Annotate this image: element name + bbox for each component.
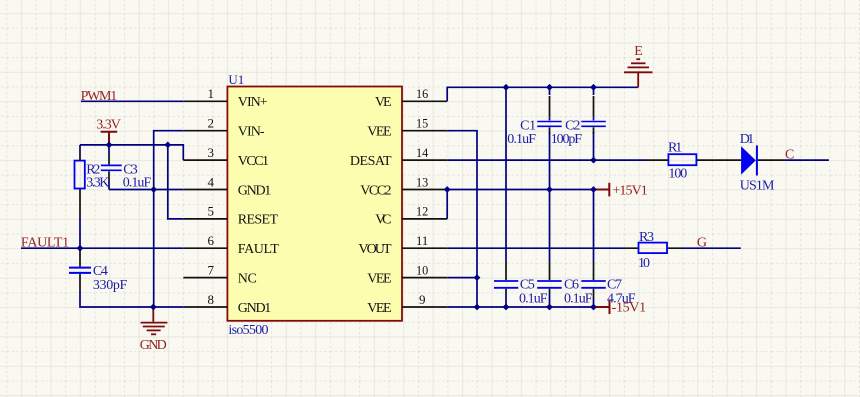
node VEE pin9 junction	[474, 304, 481, 311]
power symbol 3.3V	[101, 132, 118, 145]
node VE / C5 junction	[503, 84, 510, 91]
svg-text:VC: VC	[375, 213, 391, 228]
svg-text:12: 12	[416, 204, 428, 219]
svg-text:+15V1: +15V1	[612, 184, 647, 199]
svg-text:VOUT: VOUT	[358, 242, 392, 257]
wire diode to C	[758, 159, 785, 161]
svg-text:7: 7	[208, 262, 215, 277]
IC U1 iso5500 body	[227, 87, 402, 321]
node VEE pin10 junction	[474, 274, 481, 281]
resistor R3	[639, 243, 668, 254]
svg-text:0.1uF: 0.1uF	[123, 176, 152, 191]
pin 5 RESET	[183, 218, 227, 220]
svg-text:VIN-: VIN-	[238, 125, 265, 140]
svg-text:3.3V: 3.3V	[96, 118, 121, 133]
wire VEE pin10 to rail	[447, 277, 477, 279]
pin 11 VOUT	[402, 247, 447, 249]
svg-text:3: 3	[208, 145, 215, 160]
node 3.3V / C3 / R2 junction	[106, 142, 113, 149]
capacitor C5	[494, 281, 518, 288]
svg-text:DESAT: DESAT	[350, 154, 392, 169]
svg-text:C4: C4	[93, 264, 108, 279]
svg-text:11: 11	[416, 233, 428, 248]
resistor R2	[75, 161, 85, 189]
svg-text:C: C	[785, 148, 794, 163]
svg-text:GND1: GND1	[238, 183, 271, 198]
svg-text:100pF: 100pF	[551, 132, 583, 147]
svg-text:NC: NC	[238, 271, 257, 286]
pin 12 VC	[402, 218, 447, 220]
svg-text:RESET: RESET	[238, 213, 279, 228]
pin 2 VIN-	[183, 130, 227, 132]
pin 6 FAULT	[183, 247, 227, 249]
svg-text:VCC2: VCC2	[360, 183, 391, 198]
svg-text:GND1: GND1	[238, 301, 271, 316]
wire VEE pin9 row	[447, 306, 596, 308]
svg-text:VIN+: VIN+	[238, 95, 268, 110]
svg-text:iso5500: iso5500	[228, 323, 268, 338]
ground symbol GND	[141, 307, 168, 334]
wire rail x506 VE to C5	[505, 87, 507, 262]
svg-text:2: 2	[208, 116, 215, 131]
svg-text:C1: C1	[520, 118, 536, 133]
svg-text:C2: C2	[565, 118, 580, 133]
svg-text:VCC1: VCC1	[238, 154, 269, 169]
wire RESET rail	[168, 145, 184, 219]
node VCC2 / VC junction	[444, 186, 451, 193]
capacitor C6	[537, 281, 562, 288]
svg-text:R3: R3	[639, 230, 654, 245]
wire left rail R2 branch	[79, 145, 81, 248]
svg-text:VEE: VEE	[367, 301, 391, 316]
wire rail x593.5 upper	[593, 87, 595, 95]
svg-text:13: 13	[416, 174, 428, 189]
svg-text:GND: GND	[140, 338, 167, 353]
pin 8 GND1	[183, 306, 227, 308]
wire FAULT1 net to pin 6	[21, 247, 183, 249]
wire VIN- rail	[154, 131, 184, 307]
svg-text:VEE: VEE	[367, 125, 391, 140]
wire R3 to G	[683, 247, 741, 249]
svg-text:US1M: US1M	[740, 178, 775, 193]
svg-text:10: 10	[638, 256, 650, 271]
svg-text:0.1uF: 0.1uF	[564, 292, 593, 307]
ground symbol E	[624, 59, 653, 87]
capacitor C7	[581, 281, 606, 288]
wire rail x593.5 lower	[593, 190, 595, 263]
pin 7 NC	[183, 277, 227, 279]
node +15V1 / C7 junction	[590, 186, 597, 193]
wire VEE rail pin15	[447, 131, 477, 307]
pin 14 DESAT	[402, 159, 447, 161]
node 3.3V / RESET junction	[164, 142, 171, 149]
pin 3 VCC1	[183, 159, 227, 161]
node DESAT / C2 junction	[590, 157, 597, 164]
node GND1 / VIN- junction	[150, 186, 157, 193]
wire PWM1 net to pin 1	[81, 100, 183, 102]
svg-text:C6: C6	[564, 278, 579, 293]
svg-text:C5: C5	[520, 278, 535, 293]
svg-text:G: G	[697, 235, 707, 250]
node +15V1 / C1 junction	[546, 186, 553, 193]
svg-text:FAULT: FAULT	[238, 242, 280, 257]
wire 3.3V rail	[80, 145, 183, 160]
svg-text:14: 14	[416, 145, 429, 160]
pin 16 VE	[402, 100, 447, 102]
pin 1 VIN+	[183, 100, 227, 102]
node VEE / C6 junction	[546, 304, 553, 311]
pin 15 VEE	[402, 130, 447, 132]
svg-text:6: 6	[208, 233, 215, 248]
wire VCC2 pin13 to +15V1 and pin12	[447, 190, 596, 219]
pin 13 VCC2	[402, 189, 447, 191]
pin 9 VEE	[402, 306, 447, 308]
svg-text:U1: U1	[228, 72, 244, 87]
svg-text:4: 4	[208, 174, 215, 189]
svg-text:0.1uF: 0.1uF	[507, 132, 536, 147]
svg-text:330pF: 330pF	[93, 278, 128, 293]
svg-text:15: 15	[416, 116, 428, 131]
svg-text:VE: VE	[375, 95, 392, 110]
wire rail x549.5	[549, 87, 551, 95]
svg-text:9: 9	[419, 292, 426, 307]
svg-text:4.7uF: 4.7uF	[607, 292, 636, 307]
svg-text:0.1uF: 0.1uF	[519, 292, 548, 307]
wire GND1 pin4 row	[109, 189, 183, 191]
svg-text:C7: C7	[607, 278, 622, 293]
capacitor C3	[108, 145, 110, 155]
capacitor C1	[537, 122, 562, 127]
svg-text:100: 100	[668, 167, 687, 182]
svg-text:5: 5	[208, 204, 215, 219]
diode D1	[741, 146, 756, 174]
node VE / C2 junction	[590, 84, 597, 91]
wire VE net (pin 16 up and right)	[447, 87, 638, 101]
svg-text:10: 10	[416, 262, 428, 277]
node VEE / C5 junction	[503, 304, 510, 311]
capacitor C2	[581, 122, 606, 127]
wire DESAT to R1	[447, 159, 645, 161]
svg-text:FAULT1: FAULT1	[21, 236, 69, 251]
svg-text:1: 1	[208, 86, 215, 101]
pin 10 VEE	[402, 277, 447, 279]
capacitor C4	[79, 248, 81, 266]
resistor R1	[668, 154, 696, 165]
power symbol -15V1	[596, 301, 610, 315]
svg-text:3.3K: 3.3K	[86, 176, 109, 191]
node GND1 / GND junction	[150, 304, 157, 311]
svg-text:D1: D1	[740, 132, 755, 147]
node VE / C1 junction	[546, 84, 553, 91]
svg-text:VEE: VEE	[367, 271, 391, 286]
svg-text:E: E	[634, 44, 643, 59]
wire VOUT to R3	[447, 247, 624, 249]
node FAULT1 / R2 / C4 junction	[77, 245, 84, 252]
svg-text:8: 8	[208, 292, 215, 307]
pin 4 GND1	[183, 189, 227, 191]
svg-text:16: 16	[416, 86, 429, 101]
node VEE / C7 junction	[590, 304, 597, 311]
svg-text:PWM1: PWM1	[81, 89, 118, 104]
svg-text:R1: R1	[668, 141, 682, 156]
power symbol +15V1	[596, 183, 609, 197]
